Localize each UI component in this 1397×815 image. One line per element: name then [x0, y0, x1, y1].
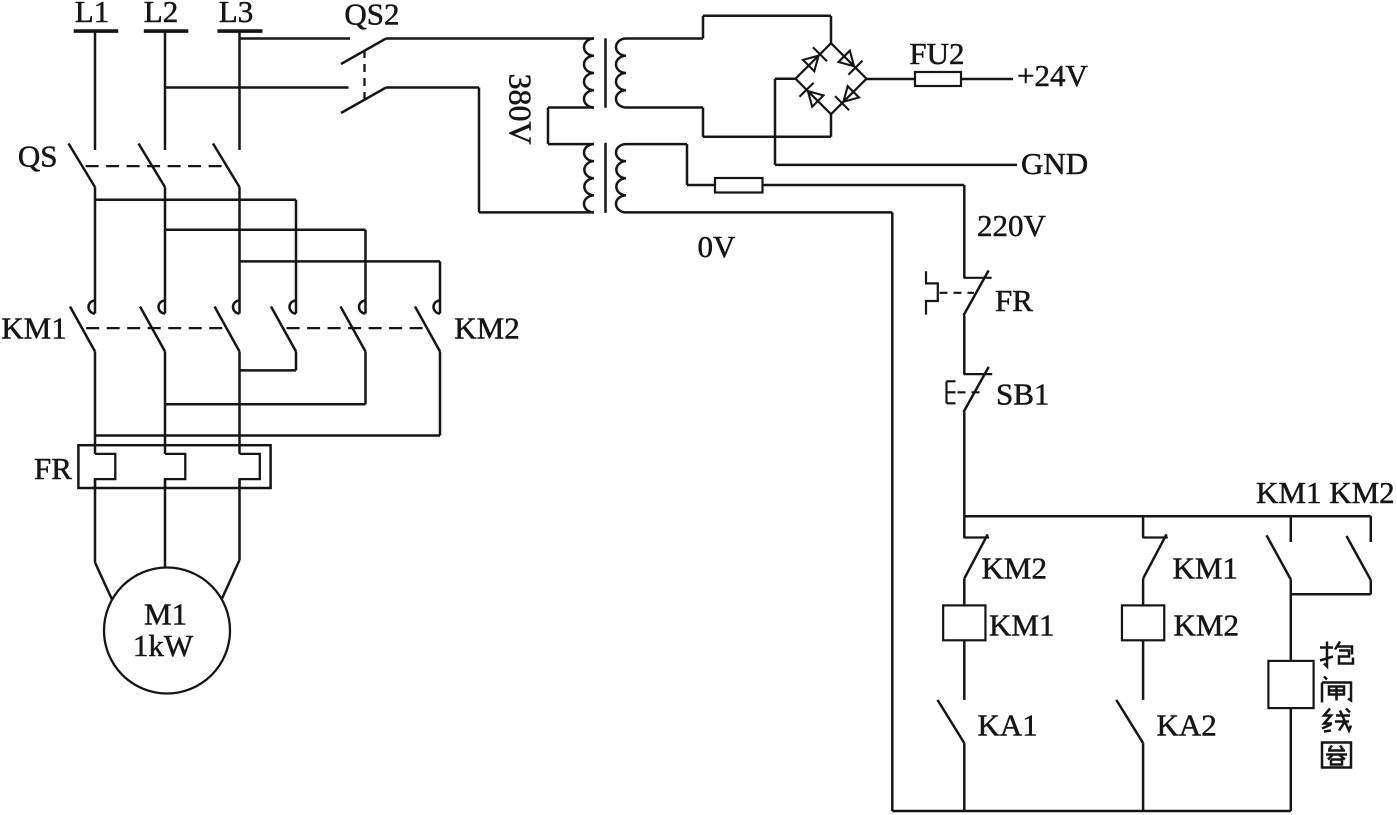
svg-text:M1: M1 [144, 597, 187, 632]
svg-text:FU2: FU2 [909, 36, 964, 71]
svg-text:QS: QS [18, 139, 58, 174]
svg-text:KA2: KA2 [1157, 708, 1217, 743]
svg-text:+24V: +24V [1017, 58, 1088, 93]
svg-text:380V: 380V [503, 73, 539, 144]
svg-text:KM2: KM2 [454, 311, 519, 346]
svg-text:L1: L1 [75, 0, 109, 29]
svg-text:KA1: KA1 [978, 708, 1038, 743]
svg-text:SB1: SB1 [996, 377, 1049, 412]
svg-text:L3: L3 [219, 0, 253, 29]
svg-text:FR: FR [995, 283, 1033, 318]
svg-text:KM2: KM2 [1174, 608, 1239, 643]
svg-text:KM1: KM1 [1173, 551, 1238, 586]
svg-text:1kW: 1kW [133, 628, 194, 663]
svg-text:KM2: KM2 [982, 551, 1047, 586]
svg-text:GND: GND [1021, 146, 1088, 181]
svg-text:220V: 220V [977, 208, 1047, 243]
svg-text:QS2: QS2 [344, 0, 399, 32]
svg-text:KM1: KM1 [989, 608, 1054, 643]
svg-text:0V: 0V [698, 229, 737, 264]
svg-text:KM1: KM1 [1, 311, 66, 346]
svg-text:KM1 KM2: KM1 KM2 [1256, 475, 1395, 510]
svg-text:FR: FR [34, 451, 72, 486]
svg-text:L2: L2 [144, 0, 178, 29]
